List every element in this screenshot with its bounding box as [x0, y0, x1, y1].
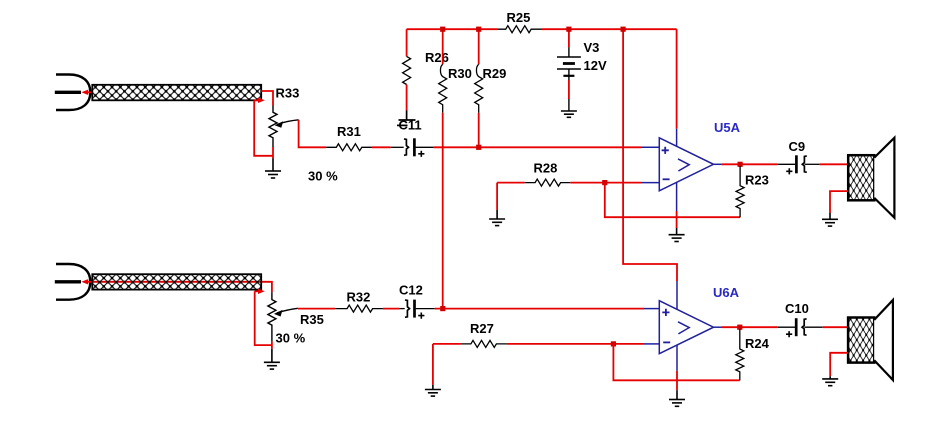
svg-text:R27: R27: [470, 321, 494, 336]
wire (cable W2 shield arrow): [255, 289, 265, 294]
wire (U6A feedback: inverting node down and right to R24 bottom): [613, 344, 739, 380]
wire (U6A output to C10): [722, 326, 778, 328]
battery V3: [557, 29, 581, 111]
resistor R27: [433, 340, 644, 347]
resistor R30: [439, 29, 447, 113]
ground (below V3): [561, 111, 577, 117]
svg-text:U5A: U5A: [714, 120, 741, 135]
wire (rail corner to U5A supply pin): [676, 29, 678, 129]
svg-text:C9: C9: [789, 139, 806, 154]
plug J1 (upper input connector): [55, 75, 91, 111]
svg-text:R32: R32: [347, 290, 371, 305]
svg-text:R23: R23: [745, 173, 769, 188]
wire (upper non-inverting input line): [434, 146, 642, 148]
wire (speaker LS2 bottom terminal to ground): [830, 353, 848, 377]
capacitor C9 (polarized): [778, 155, 820, 174]
wire (plug J2 pin arrow): [81, 279, 88, 284]
capacitor C11 (polarized): [391, 138, 434, 157]
resistor R26: [403, 29, 411, 110]
svg-text:V3: V3: [584, 40, 600, 55]
svg-text:30 %: 30 %: [308, 169, 338, 184]
wire (cable W2 shield to R35 bottom, U shape): [255, 291, 272, 345]
svg-text:R29: R29: [483, 66, 507, 81]
svg-text:12V: 12V: [584, 58, 607, 73]
wire (R27 left leg down to ground): [432, 344, 434, 385]
svg-text:30 %: 30 %: [276, 331, 306, 346]
capacitor C10 (polarized): [778, 318, 823, 337]
ground (below U5A): [669, 228, 685, 242]
node (U6A output junction): [737, 325, 742, 330]
svg-text:R30: R30: [448, 66, 472, 81]
wire (R30 bottom long vertical to C12 output node): [442, 113, 444, 309]
svg-text:C10: C10: [785, 301, 809, 316]
node (rail junction at R29): [476, 27, 481, 32]
wire (cable W1 shield to R33 bottom, U shape): [254, 100, 273, 156]
svg-text:R26: R26: [425, 50, 449, 65]
wire (plug J1 pin stub with arrow): [81, 90, 92, 95]
node (rail junction at U6A drop): [621, 27, 626, 32]
resistor R24: [736, 329, 744, 380]
resistor R28: [497, 179, 641, 186]
wire (C10 to speaker LS2): [823, 326, 848, 328]
wire (U5A negative supply pin to ground): [676, 211, 678, 228]
resistor R29: [475, 29, 483, 147]
wire (lower non-inverting input line): [435, 308, 644, 310]
speaker LS1: [848, 138, 894, 218]
wire (speaker LS1 bottom terminal to ground): [830, 191, 848, 213]
ground (below speaker LS1): [822, 213, 838, 226]
svg-text:R33: R33: [276, 86, 300, 101]
wire (U5A output to C9): [721, 163, 777, 165]
resistor R32: [335, 305, 383, 312]
svg-text:R35: R35: [300, 312, 324, 327]
shielded cable W2 (lower crosshatched cable): [92, 274, 261, 289]
wire (top supply rail): [407, 28, 677, 30]
svg-text:U6A: U6A: [713, 285, 740, 300]
capacitor C12 (polarized): [400, 300, 435, 319]
wire (rail drop to U6A supply): [623, 29, 677, 281]
resistor R25: [498, 26, 542, 33]
ground (below speaker LS2): [822, 376, 838, 385]
potentiometer R35: [268, 292, 298, 349]
svg-text:R24: R24: [745, 336, 770, 351]
wire (U6A negative supply pin to ground): [676, 371, 678, 390]
plug J2 (lower input connector): [55, 264, 91, 300]
ground (below U6A): [669, 390, 685, 406]
node (U5A output junction): [738, 162, 743, 167]
wire (cable W1 shield arrow): [254, 98, 265, 103]
ground (below R33): [265, 159, 281, 179]
op-amp U5A: [642, 129, 722, 211]
wire (R33 wiper to R31): [299, 120, 327, 148]
wire (C9 to speaker LS1): [820, 163, 849, 165]
op-amp U6A: [644, 281, 722, 371]
node (R29 to + input line junction): [476, 145, 481, 150]
node (rail junction at R30): [440, 27, 445, 32]
wire (U5A feedback: inverting node down and right to R23 bottom): [605, 183, 740, 218]
wire (R28 left leg down to ground): [496, 183, 498, 210]
wire (plug J2 pin through cable): [87, 282, 272, 292]
node (R26 lower terminal bar above C11 label): [397, 111, 416, 126]
ground (below R35): [264, 349, 280, 369]
svg-text:C12: C12: [399, 283, 423, 298]
ground (below R28 left): [489, 210, 505, 226]
wire (cable W1 right end to R33 top): [261, 91, 273, 106]
svg-text:R25: R25: [507, 10, 531, 25]
resistor R23: [736, 166, 744, 217]
ground (below R27 left): [425, 385, 441, 396]
shielded cable W1 (upper crosshatched cable): [92, 85, 261, 101]
svg-text:R28: R28: [534, 161, 558, 176]
wire (R32 to C12): [383, 308, 400, 310]
wire (R31 to C11): [372, 146, 391, 148]
wire (R35 wiper to R32): [298, 308, 335, 310]
node (C12 output / R30 junction): [440, 306, 445, 311]
node (U6A inverting input junction): [611, 341, 616, 346]
potentiometer R33: [269, 106, 299, 159]
speaker LS2: [848, 300, 893, 380]
resistor R31: [326, 144, 372, 151]
svg-text:R31: R31: [337, 124, 361, 139]
node (rail junction at V3): [566, 27, 571, 32]
node (U5A inverting input junction): [602, 180, 607, 185]
